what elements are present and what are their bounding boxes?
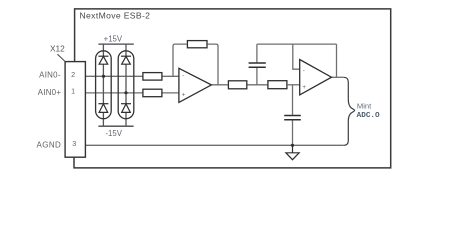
wire R1 to op-amp U1 minus input [162, 75, 179, 77]
svg-text:+15V: +15V [104, 35, 123, 44]
diode package outline D2 (capsule) [118, 51, 134, 119]
svg-text:AGND: AGND [36, 140, 61, 149]
wire U1 feedback left riser [173, 44, 187, 76]
svg-text:3: 3 [72, 139, 76, 148]
diode D2a (to +15V) [121, 56, 131, 64]
clamp column wire D2 [125, 44, 127, 126]
wire C1 upper stub [256, 44, 258, 62]
wire U2 output [332, 76, 344, 78]
svg-text:-: - [182, 73, 184, 80]
resistor R1 [143, 73, 162, 81]
svg-text:Mint: Mint [357, 102, 372, 111]
resistor R2 [143, 89, 162, 97]
+15V rail [98, 43, 133, 45]
resistor Rf feedback [187, 41, 207, 48]
junction node on D2 column (AIN0+) [124, 91, 127, 94]
svg-text:AIN0-: AIN0- [39, 71, 61, 80]
svg-text:X12: X12 [50, 43, 65, 53]
wire U2 minus input drop [293, 44, 300, 69]
diode D2b (to -15V) [121, 104, 131, 113]
resistor R4 [268, 81, 287, 89]
connector X12 body [65, 62, 85, 158]
svg-text:ADC.O: ADC.O [357, 112, 380, 120]
capacitor C2 [284, 116, 301, 120]
diode D1b (to -15V) [98, 104, 108, 113]
ground symbol [286, 145, 299, 159]
wire U2 feedback top run [257, 43, 337, 45]
wire pin2 AIN0- to R1 [85, 75, 142, 77]
clamp column wire D1 [102, 44, 104, 126]
svg-text:1: 1 [71, 86, 75, 95]
diode package outline D1 (capsule) [96, 51, 112, 119]
svg-text:-: - [303, 67, 305, 74]
wire U1 feedback right drop [208, 44, 218, 85]
svg-text:-15V: -15V [105, 129, 122, 138]
-15V rail [98, 125, 133, 127]
resistor R3 [228, 81, 246, 89]
svg-text:+: + [302, 84, 306, 91]
svg-text:+: + [182, 91, 186, 98]
wire U2 feedback right drop [336, 44, 338, 77]
leader line X12 [57, 54, 65, 61]
diode D1a (to +15V) [98, 56, 108, 64]
wire R3 to R4 [247, 84, 267, 86]
wire C1 lower stub [256, 68, 258, 85]
svg-text:2: 2 [71, 70, 75, 79]
capacitor C1 [249, 63, 266, 67]
op-amp U1 [179, 68, 212, 102]
wire U1 output to R3 [211, 84, 227, 86]
svg-text:AIN0+: AIN0+ [38, 88, 62, 97]
wire AGND rail [85, 144, 343, 146]
junction node on AGND rail (C2/ground) [291, 144, 294, 147]
wire C2 lower stub [292, 120, 294, 145]
wire pin1 AIN0+ to R2 [85, 92, 142, 94]
wire R2 to op-amp U1 plus input [162, 92, 179, 94]
junction node on D1 column (AIN0-) [102, 75, 105, 78]
output brace (wire hooks forming curly bracket) [344, 77, 355, 145]
op-amp U2 [300, 60, 332, 95]
svg-text:NextMove ESB-2: NextMove ESB-2 [80, 11, 151, 21]
enclosure box NextMove ESB-2 [74, 9, 391, 168]
wire C2 upper stub [292, 85, 294, 115]
wire R4 to op-amp U2 plus input [288, 84, 300, 86]
